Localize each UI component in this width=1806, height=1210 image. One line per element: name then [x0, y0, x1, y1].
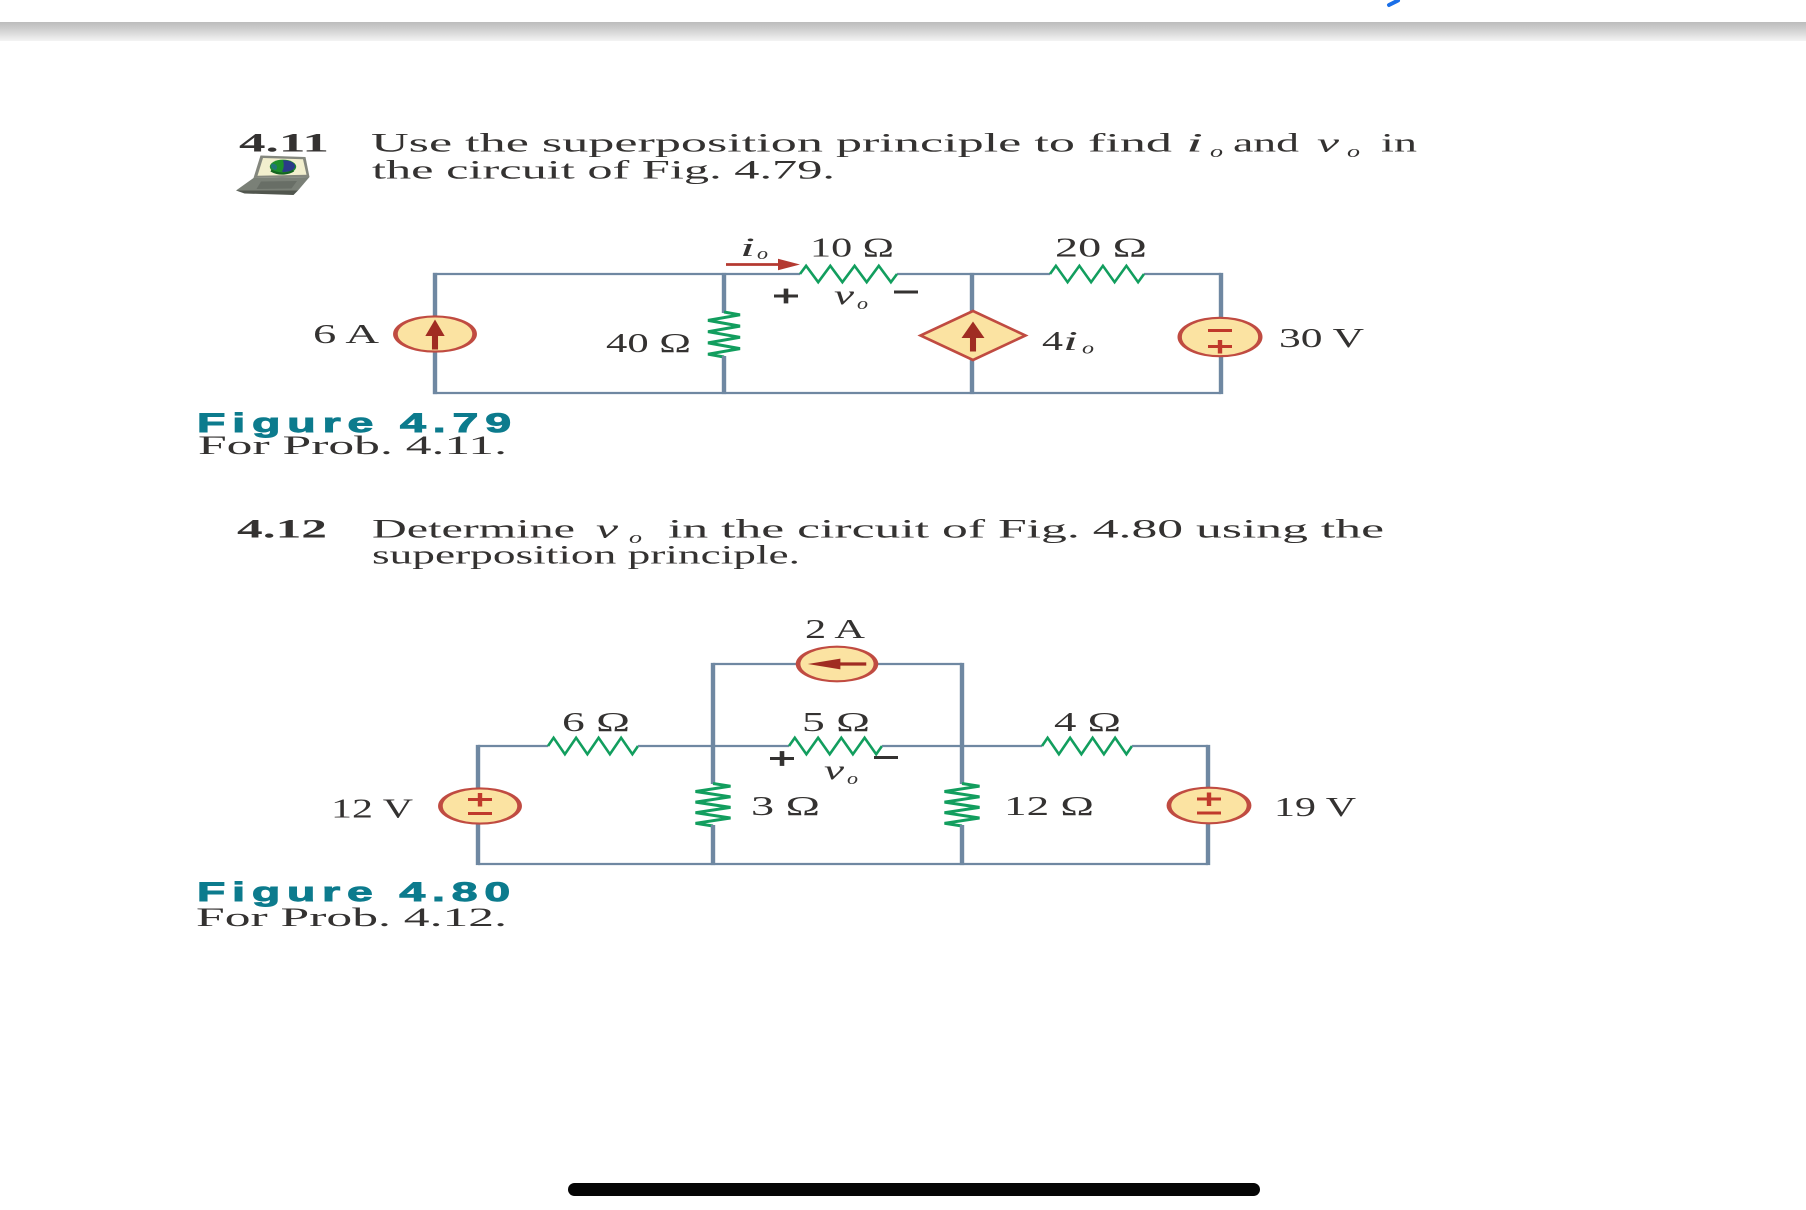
- label 40 ohm: [606, 328, 691, 358]
- wire: circuit2 upper loop left vertical: [711, 663, 715, 746]
- svg-text:4 Ω: 4 Ω: [1054, 707, 1121, 737]
- svg-text:12 V: 12 V: [331, 794, 414, 824]
- svg-text:30 V: 30 V: [1279, 323, 1365, 353]
- dependent source diamond 4io: [921, 311, 1026, 360]
- arrow inside 2A source (pointing left): [808, 659, 867, 670]
- wire: circuit1 bottom rail: [433, 392, 1221, 394]
- current arrow io: [726, 259, 800, 271]
- current source 6A: [395, 316, 474, 351]
- arrow inside dependent source: [962, 322, 985, 352]
- minus sign of vo (circuit1): [894, 291, 918, 294]
- wire: dependent source branch upper stub: [970, 273, 974, 312]
- svg-text:6 Ω: 6 Ω: [562, 707, 630, 737]
- wire: circuit1 40-ohm branch upper stub: [722, 273, 726, 313]
- label 4 ohm: [1054, 707, 1121, 737]
- caption Figure 4.79: [197, 408, 518, 438]
- svg-text:i: i: [740, 233, 755, 262]
- wire: circuit1 40-ohm branch lower stub: [722, 356, 726, 394]
- wire: dependent source branch lower stub: [970, 359, 974, 394]
- voltage source 30V: [1180, 318, 1261, 356]
- wire: 12-ohm branch upper stub: [960, 746, 964, 784]
- svg-text:For Prob. 4.11.: For Prob. 4.11.: [198, 431, 507, 460]
- wire: circuit2 left branch upper: [476, 745, 480, 789]
- wire: 12-ohm branch lower stub: [960, 825, 964, 865]
- wire: circuit1 top rail middle segment: [897, 273, 1050, 275]
- wire: circuit1 top rail left segment: [433, 273, 800, 275]
- label 10 ohm: [810, 233, 894, 263]
- svg-text:Use the superposition principl: Use the superposition principle to find: [371, 129, 1172, 158]
- svg-text:Determine: Determine: [372, 515, 575, 544]
- wire: circuit1 right branch lower: [1219, 356, 1223, 394]
- svg-text:o: o: [1210, 142, 1223, 161]
- 30V plus sign (bottom): [1208, 340, 1232, 354]
- resistor 10 ohm (horizontal): [800, 266, 897, 282]
- svg-text:4.11: 4.11: [239, 129, 329, 158]
- svg-text:20 Ω: 20 Ω: [1055, 233, 1147, 263]
- svg-text:2 A: 2 A: [805, 614, 866, 644]
- label 12 V: [331, 794, 414, 824]
- wire: 3-ohm branch upper stub: [711, 746, 715, 784]
- svg-text:in the circuit of Fig. 4.80 us: in the circuit of Fig. 4.80 using the: [668, 515, 1384, 544]
- label 30 V: [1279, 323, 1365, 353]
- svg-text:in: in: [1381, 129, 1417, 158]
- svg-text:5 Ω: 5 Ω: [802, 707, 870, 737]
- svg-text:superposition principle.: superposition principle.: [372, 541, 800, 570]
- 12V minus sign (bottom): [468, 812, 492, 815]
- wire: circuit2 right branch upper: [1206, 745, 1210, 789]
- svg-text:v: v: [824, 755, 844, 785]
- resistor 4 ohm: [1042, 738, 1132, 754]
- resistor 3 ohm (vertical): [696, 784, 731, 827]
- label 19 V: [1274, 792, 1357, 822]
- wire: circuit2 main rail segment 4: [1132, 745, 1208, 747]
- label 3 ohm: [751, 791, 820, 821]
- label 6 ohm: [562, 707, 630, 737]
- wire: 3-ohm branch lower stub: [711, 825, 715, 865]
- wire: circuit2 main rail segment 3: [882, 745, 1042, 747]
- resistor 20 ohm (horizontal): [1050, 266, 1144, 282]
- label 6 A: [313, 319, 380, 349]
- wire: circuit2 upper loop top left segment: [713, 663, 797, 665]
- svg-text:v: v: [1317, 129, 1340, 158]
- label 5 ohm: [802, 707, 870, 737]
- svg-text:o: o: [1347, 142, 1360, 161]
- svg-text:40 Ω: 40 Ω: [606, 328, 691, 358]
- plus sign of vo (circuit2): [770, 751, 794, 766]
- bottom home-indicator bar: [568, 1183, 1260, 1196]
- svg-text:10 Ω: 10 Ω: [810, 233, 894, 263]
- svg-text:i: i: [1186, 129, 1203, 158]
- svg-text:v: v: [834, 280, 854, 310]
- toolbar shadow bar: [0, 22, 1806, 41]
- voltage source 19V: [1169, 788, 1249, 824]
- resistor 40 ohm (vertical): [708, 312, 740, 357]
- wire: circuit2 upper loop right vertical: [960, 663, 964, 746]
- svg-text:v: v: [596, 515, 619, 544]
- wire: circuit2 bottom rail: [478, 863, 1208, 865]
- svg-text:3 Ω: 3 Ω: [751, 791, 820, 821]
- problem number 4.11: [239, 129, 329, 158]
- svg-text:For Prob. 4.12.: For Prob. 4.12.: [196, 903, 507, 932]
- svg-text:4: 4: [1042, 326, 1064, 356]
- caption For Prob. 4.11.: [198, 431, 507, 460]
- label 2 A: [805, 614, 866, 644]
- problem 4.12 statement line 2: [372, 541, 800, 570]
- resistor 12 ohm (vertical): [945, 784, 980, 827]
- arrow inside 6A source: [425, 320, 444, 350]
- label 12 ohm: [1004, 791, 1094, 821]
- label 20 ohm: [1055, 233, 1147, 263]
- wire: circuit2 left branch lower: [476, 823, 480, 865]
- svg-text:19 V: 19 V: [1274, 792, 1357, 822]
- wire: circuit2 main rail segment 1: [478, 745, 548, 747]
- svg-text:o: o: [847, 769, 858, 788]
- svg-text:6 A: 6 A: [313, 319, 380, 349]
- 19V minus sign (bottom): [1197, 812, 1221, 815]
- svg-text:o: o: [757, 244, 768, 263]
- wire: circuit1 right branch upper: [1219, 273, 1223, 318]
- caption Figure 4.80: [197, 877, 517, 907]
- resistor 5 ohm: [789, 738, 882, 754]
- wire: circuit2 main rail segment 2: [638, 745, 789, 747]
- minus sign of vo (circuit2): [874, 756, 898, 759]
- wire: circuit1 left branch lower: [433, 351, 437, 394]
- resistor 6 ohm: [548, 738, 638, 754]
- svg-text:4.12: 4.12: [237, 515, 327, 544]
- problem 4.11 statement line 2: [372, 156, 835, 185]
- wire: circuit2 right branch lower: [1206, 823, 1210, 865]
- svg-text:i: i: [1063, 326, 1078, 356]
- caption For Prob. 4.12.: [196, 903, 507, 932]
- svg-text:o: o: [1082, 339, 1094, 358]
- label vo (circuit1): [834, 280, 868, 313]
- current source 2A: [798, 647, 876, 682]
- 12V plus sign (top): [468, 793, 492, 807]
- svg-text:o: o: [857, 294, 868, 313]
- problem number 4.12: [237, 515, 327, 544]
- svg-text:12 Ω: 12 Ω: [1004, 791, 1094, 821]
- svg-text:the circuit of Fig. 4.79.: the circuit of Fig. 4.79.: [372, 156, 835, 185]
- label vo (circuit2): [824, 755, 858, 788]
- label io: [740, 233, 768, 263]
- problem 4.11 statement line 1: [371, 129, 1417, 162]
- laptop icon: [236, 156, 310, 196]
- wire: circuit2 upper loop top right segment: [878, 663, 962, 665]
- wire: circuit1 left branch upper: [433, 273, 437, 317]
- 19V plus sign (top): [1197, 793, 1221, 807]
- wire: circuit1 top rail right segment: [1144, 273, 1221, 275]
- svg-text:and: and: [1233, 129, 1299, 158]
- 30V minus sign (top): [1208, 329, 1232, 332]
- voltage source 12V: [440, 788, 519, 823]
- label 4io: [1042, 326, 1094, 358]
- blue glyph fragment top right: [1389, 1, 1398, 6]
- problem 4.12 statement line 1: [372, 515, 1384, 548]
- plus sign of vo (circuit1): [774, 289, 798, 304]
